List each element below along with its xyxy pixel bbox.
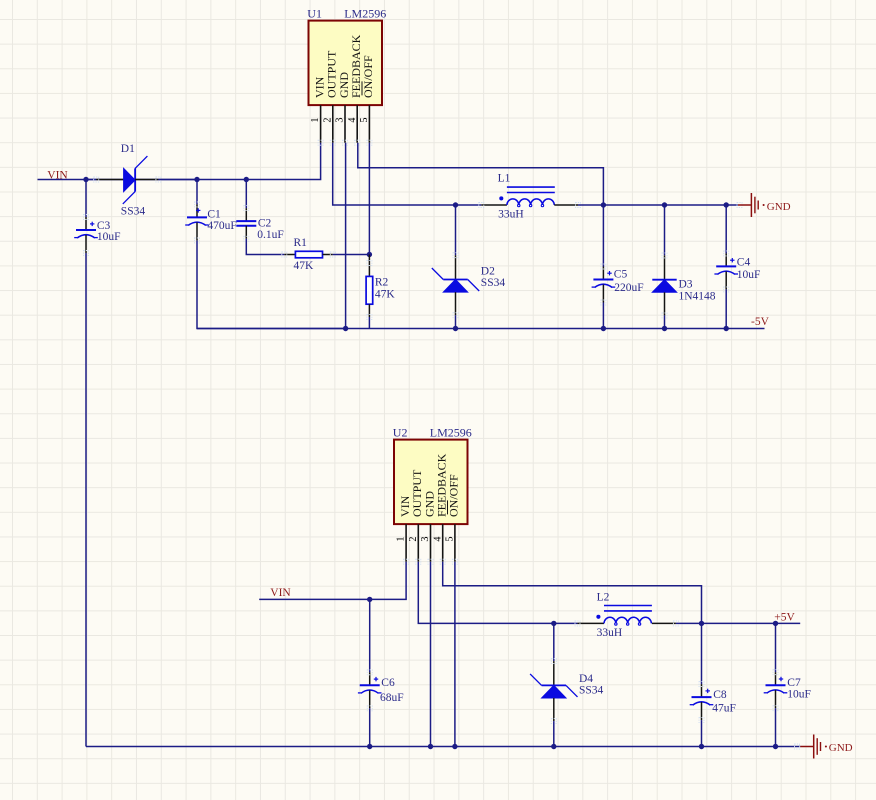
diode D3 1N4148 <box>652 253 676 318</box>
wire down to C1 <box>196 180 198 205</box>
svg-text:1N4148: 1N4148 <box>679 290 716 302</box>
svg-text:470uF: 470uF <box>207 220 236 232</box>
wire down to D2 <box>455 205 457 255</box>
svg-text:D3: D3 <box>679 278 693 290</box>
svg-text:10uF: 10uF <box>97 231 121 243</box>
svg-text:2: 2 <box>408 537 419 542</box>
wire U1 pin5 ON/OFF down to divider <box>368 143 370 255</box>
capacitor C7 <box>764 670 788 711</box>
label C2 0.1uF <box>257 218 284 242</box>
diode D1 SS34 <box>94 156 161 204</box>
svg-text:U2: U2 <box>393 426 408 440</box>
label C8 47uF <box>712 689 736 714</box>
ground symbol (bottom GND) <box>795 735 827 759</box>
label R2 47K <box>375 277 396 301</box>
svg-text:47K: 47K <box>375 289 396 301</box>
U1 pin numbers 1-5 <box>310 118 370 123</box>
svg-text:C2: C2 <box>258 218 272 230</box>
junction C6 tap <box>367 597 372 602</box>
wire C8 to GND rail <box>701 720 703 746</box>
capacitor C5 <box>592 264 616 305</box>
wire C6 to GND rail <box>369 708 371 746</box>
capacitor C3 <box>74 215 98 256</box>
wire U2 pin3 GND down to GND rail <box>430 562 432 747</box>
svg-text:C1: C1 <box>207 208 221 220</box>
label U2 <box>393 426 408 440</box>
svg-text:3: 3 <box>335 118 346 123</box>
junction L2/C8/feedback node <box>699 621 704 626</box>
svg-text:ON/OFF: ON/OFF <box>447 474 461 517</box>
wire down to D3 <box>664 205 666 255</box>
svg-text:68uF: 68uF <box>380 692 404 704</box>
capacitor C8 <box>690 682 714 723</box>
wire down to C5 <box>602 205 604 267</box>
wire VIN rail (bottom) to U2 pin 1 <box>259 562 406 600</box>
label C4 10uF <box>737 257 761 282</box>
inductor L1 33uH <box>479 187 581 207</box>
label C6 68uF <box>380 677 404 704</box>
node VIN (top) <box>47 170 68 182</box>
resistor R2 <box>366 255 373 320</box>
wire VIN rail down to C3 <box>85 180 87 218</box>
diode D2 SS34 (schottky) <box>432 253 479 318</box>
svg-text:+5V: +5V <box>774 612 795 624</box>
svg-text:4: 4 <box>347 118 358 123</box>
svg-text:33uH: 33uH <box>597 627 623 639</box>
wire U2 pin5 ON/OFF down to GND rail <box>454 562 456 747</box>
label D1 SS34 <box>121 143 146 217</box>
svg-text:0.1uF: 0.1uF <box>257 229 284 241</box>
wire U1 pin4 FEEDBACK to output node <box>358 143 604 205</box>
junction C5 at -5V rail <box>601 326 606 331</box>
node VIN (bottom) <box>270 587 291 599</box>
wire D2 to -5V rail <box>455 315 457 328</box>
svg-text:C8: C8 <box>713 689 727 701</box>
IC U2 LM2596 <box>394 440 468 565</box>
capacitor C1 <box>185 202 209 243</box>
junction L1/C5/feedback node <box>601 202 606 207</box>
svg-text:47uF: 47uF <box>712 702 736 714</box>
wire down to C8 <box>701 623 703 684</box>
wire down to C2 <box>245 180 247 209</box>
svg-text:3: 3 <box>420 537 431 542</box>
junction D3 at -5V rail <box>662 326 667 331</box>
resistor R1 <box>282 251 336 257</box>
svg-text:C6: C6 <box>381 677 395 689</box>
label C7 10uF <box>787 677 811 700</box>
junction D3 tap <box>662 202 667 207</box>
label GND (top) <box>767 201 791 213</box>
junction C4 at -5V rail <box>724 326 729 331</box>
label L2 33uH <box>597 591 623 639</box>
junction C3 tap <box>83 177 88 182</box>
junction C2 tap <box>244 177 249 182</box>
label C5 220uF <box>614 268 644 293</box>
junction D4 at GND rail <box>551 744 556 749</box>
junction D4 tap <box>551 621 556 626</box>
label GND (bottom) <box>829 742 853 754</box>
svg-text:4: 4 <box>432 537 443 542</box>
svg-text:U1: U1 <box>307 7 322 21</box>
wire U1 pin3 GND down to -5V rail <box>345 143 347 329</box>
svg-text:VIN: VIN <box>270 587 291 599</box>
junction C8 at GND rail <box>699 744 704 749</box>
wire down to D4 <box>553 623 555 661</box>
U1 pin names VIN OUTPUT GND FEEDBACK ON/OFF <box>312 34 375 98</box>
svg-text:ON/OFF: ON/OFF <box>361 55 375 98</box>
svg-text:-5V: -5V <box>751 316 770 328</box>
node -5V <box>751 316 770 328</box>
svg-text:SS34: SS34 <box>481 277 506 289</box>
label L1 33uH <box>498 173 524 221</box>
wire down to C6 <box>369 599 371 672</box>
svg-text:D1: D1 <box>121 143 135 155</box>
svg-text:220uF: 220uF <box>614 282 643 294</box>
capacitor C6 <box>358 670 382 711</box>
svg-text:1: 1 <box>396 537 407 542</box>
svg-text:LM2596: LM2596 <box>344 7 386 21</box>
wire stub to GND symbol <box>726 203 742 208</box>
wire D4 to GND rail <box>553 721 555 746</box>
junction C7 tap <box>773 621 778 626</box>
wire VIN to D1 anode <box>86 179 96 181</box>
wire R1 to feedback divider node <box>333 254 370 256</box>
wire C1 to -5V rail corner <box>197 241 346 329</box>
svg-text:L2: L2 <box>597 591 610 603</box>
capacitor C2 <box>236 206 256 242</box>
junction U1 pin3 at -5V rail <box>343 326 348 331</box>
label LM2596 (U2) <box>430 426 472 440</box>
diode D4 SS34 (schottky) <box>530 659 577 724</box>
svg-text:GND: GND <box>767 201 791 213</box>
wire down to C4 <box>725 205 727 253</box>
junction U2 pin3 at GND rail <box>428 744 433 749</box>
wire +5V rail <box>702 622 801 624</box>
U2 pin numbers 1-5 <box>396 537 456 542</box>
wire C5 to -5V rail <box>602 303 604 329</box>
svg-text:C5: C5 <box>614 268 628 280</box>
junction U2 pin5 at GND rail <box>452 744 457 749</box>
wire U2 pin4 FEEDBACK to +5V node <box>443 562 702 624</box>
label R1 47K <box>294 237 315 272</box>
label D2 SS34 <box>481 266 506 290</box>
svg-text:VIN: VIN <box>47 170 68 182</box>
svg-text:L1: L1 <box>498 173 511 185</box>
svg-text:R1: R1 <box>294 237 308 249</box>
label LM2596 (U1) <box>344 7 386 21</box>
node +5V <box>774 612 795 624</box>
junction R1/R2 divider node <box>367 252 372 257</box>
label C3 10uF <box>97 220 121 243</box>
IC U1 LM2596 <box>309 21 383 146</box>
junction D2 at -5V rail <box>453 326 458 331</box>
U2 pin names VIN OUTPUT GND FEEDBACK ON/OFF <box>398 453 461 517</box>
svg-text:33uH: 33uH <box>498 209 524 221</box>
wire C3 to bottom GND rail <box>85 253 87 747</box>
svg-text:5: 5 <box>445 537 456 542</box>
wire C4 to -5V rail <box>725 289 727 328</box>
svg-text:2: 2 <box>322 118 333 123</box>
wire output node to GND port <box>603 204 726 206</box>
svg-text:GND: GND <box>829 742 853 754</box>
wire C7 to GND rail <box>775 708 777 746</box>
wire L2 to +5V junction <box>676 622 702 624</box>
svg-text:R2: R2 <box>375 277 389 289</box>
junction D2 tap <box>453 202 458 207</box>
label D3 1N4148 <box>679 278 716 302</box>
svg-text:10uF: 10uF <box>737 269 761 281</box>
svg-text:C7: C7 <box>787 677 801 689</box>
wire -5V rail <box>197 328 765 330</box>
svg-text:D2: D2 <box>481 266 495 278</box>
junction C7 at GND rail <box>773 744 778 749</box>
wire U1 pin2 OUTPUT to L1 <box>333 143 482 205</box>
svg-text:SS34: SS34 <box>121 205 146 217</box>
capacitor C4 <box>714 251 738 292</box>
wire U2 pin2 OUTPUT to L2 <box>418 562 577 624</box>
wire D3 to -5V rail <box>664 315 666 328</box>
junction C6 at GND rail <box>367 744 372 749</box>
label D4 SS34 <box>579 673 604 697</box>
svg-text:5: 5 <box>359 118 370 123</box>
wire D1 cathode to VIN node of U1 <box>158 179 197 181</box>
wire R2 to -5V rail <box>368 317 370 329</box>
svg-text:SS34: SS34 <box>579 685 604 697</box>
junction C1 tap <box>194 177 199 182</box>
svg-text:47K: 47K <box>294 260 315 272</box>
svg-text:1: 1 <box>310 118 321 123</box>
wire C2 to R1 <box>246 239 284 255</box>
svg-text:C4: C4 <box>737 257 751 269</box>
wire down to C7 <box>775 623 777 672</box>
ground symbol (top GND) <box>738 193 765 217</box>
inductor L2 33uH <box>575 606 678 626</box>
label C1 470uF <box>207 208 236 232</box>
svg-text:10uF: 10uF <box>787 689 811 701</box>
wire GND rail (bottom) <box>86 746 800 748</box>
svg-text:D4: D4 <box>579 673 593 685</box>
junction C4 tap / GND stub <box>724 202 729 207</box>
svg-text:LM2596: LM2596 <box>430 426 472 440</box>
wire VIN rail to U1 pin 1 <box>38 143 321 180</box>
wire L1 to output junction <box>578 204 603 206</box>
label U1 <box>307 7 322 21</box>
